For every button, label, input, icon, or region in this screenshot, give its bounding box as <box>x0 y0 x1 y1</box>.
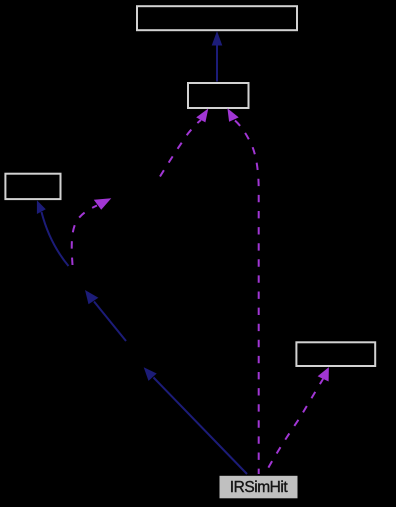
node box: IRSimHit (current class, gray filled) <box>220 476 298 499</box>
edge: curved solid blue arrow into left box <box>42 212 69 266</box>
arrowhead at left box bottom <box>37 200 46 214</box>
edge: long solid blue arrow from IRSimHit up-left <box>154 378 248 475</box>
node box: right class <box>296 342 375 366</box>
edge: dashed purple curve from lower-left label area <box>72 206 97 266</box>
node box: top base class (label text black-on-black, invisible) <box>137 6 297 30</box>
arrowhead at right box bottom <box>318 367 329 381</box>
edge: long dashed purple from IRSimHit up to box2 (right side) <box>234 120 259 474</box>
arrowhead at top box bottom <box>212 31 223 46</box>
edge: dashed purple from IRSimHit to right box <box>264 379 323 476</box>
arrowhead (mid, pointing up-right) <box>94 198 112 210</box>
arrowhead at box2 bottom-left <box>196 109 208 123</box>
arrowhead at box2 bottom-right <box>227 108 238 122</box>
arrowhead (mid chain 2) <box>85 290 98 304</box>
edge: solid blue arrow segment (mid chain) <box>94 302 126 342</box>
edge: dashed purple segment up to box2 bottom-left <box>160 120 201 177</box>
edge: solid blue inheritance arrow, box2 to top box <box>216 45 218 82</box>
node box: second-level class <box>188 83 249 108</box>
arrowhead (mid chain) <box>144 367 157 381</box>
node box: left class <box>5 174 60 199</box>
svg-text:IRSimHit: IRSimHit <box>230 479 289 496</box>
